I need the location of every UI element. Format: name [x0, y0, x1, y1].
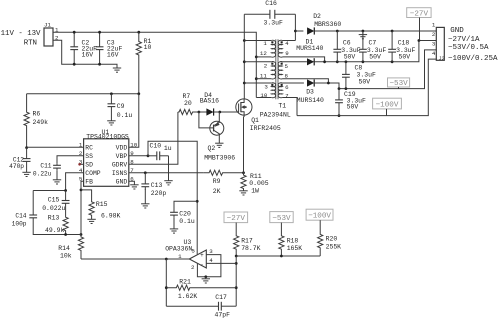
svg-text:50V: 50V	[359, 78, 371, 85]
svg-text:2: 2	[264, 62, 268, 69]
svg-text:FB: FB	[85, 179, 93, 186]
svg-text:10: 10	[144, 44, 152, 51]
svg-text:3: 3	[432, 41, 436, 48]
svg-text:9: 9	[285, 50, 289, 57]
svg-text:11: 11	[260, 72, 267, 79]
svg-text:4: 4	[209, 257, 213, 264]
svg-text:20: 20	[184, 100, 192, 107]
svg-text:C11: C11	[40, 162, 51, 169]
svg-text:C6: C6	[343, 39, 351, 46]
svg-text:3.3uF: 3.3uF	[357, 71, 376, 78]
svg-text:7: 7	[285, 92, 289, 99]
svg-text:C18: C18	[398, 39, 410, 46]
svg-text:−100V: −100V	[308, 212, 331, 220]
svg-text:470p: 470p	[9, 163, 24, 170]
svg-text:ISNS: ISNS	[112, 170, 128, 177]
svg-text:C10: C10	[150, 143, 162, 150]
svg-text:SS: SS	[85, 153, 93, 160]
svg-text:C16: C16	[265, 0, 277, 7]
svg-text:249k: 249k	[33, 119, 49, 126]
svg-text:J1: J1	[44, 22, 51, 29]
svg-text:0.1u: 0.1u	[179, 218, 195, 225]
svg-text:D2: D2	[313, 13, 321, 20]
svg-text:MURS140: MURS140	[297, 97, 324, 104]
svg-text:R6: R6	[33, 111, 41, 118]
svg-text:R9: R9	[213, 178, 221, 185]
svg-text:4: 4	[432, 50, 436, 57]
svg-text:1: 1	[263, 40, 267, 47]
svg-text:BAS16: BAS16	[200, 98, 219, 105]
svg-text:−100V: −100V	[376, 101, 399, 109]
svg-text:IRFR2405: IRFR2405	[250, 125, 281, 132]
svg-text:49.9k: 49.9k	[45, 227, 64, 234]
svg-text:R7: R7	[183, 93, 191, 100]
svg-text:6.98K: 6.98K	[101, 213, 120, 220]
svg-text:0.005: 0.005	[249, 180, 268, 187]
svg-text:MMBT3906: MMBT3906	[204, 155, 235, 162]
svg-text:C14: C14	[15, 213, 26, 220]
svg-text:T1: T1	[278, 103, 286, 110]
svg-text:R13: R13	[48, 214, 60, 221]
svg-text:255K: 255K	[326, 243, 342, 250]
svg-text:J2: J2	[439, 56, 445, 62]
svg-text:100p: 100p	[12, 220, 27, 227]
svg-text:C9: C9	[117, 103, 125, 110]
svg-text:1u: 1u	[164, 145, 172, 152]
svg-text:R21: R21	[179, 278, 191, 285]
svg-text:C20: C20	[179, 210, 191, 217]
svg-text:MURS140: MURS140	[296, 45, 323, 52]
svg-text:50V: 50V	[399, 53, 411, 60]
svg-text:OPA336N: OPA336N	[165, 245, 192, 252]
svg-text:Q2: Q2	[208, 145, 216, 152]
svg-text:50V: 50V	[369, 53, 381, 60]
svg-text:16V: 16V	[82, 51, 94, 58]
svg-text:3: 3	[264, 84, 268, 91]
svg-text:16V: 16V	[107, 51, 119, 58]
svg-text:1.62K: 1.62K	[178, 293, 197, 300]
svg-text:47pF: 47pF	[215, 312, 231, 319]
svg-text:−27V: −27V	[410, 10, 429, 18]
svg-text:0.22u: 0.22u	[33, 171, 52, 178]
svg-text:GND: GND	[116, 179, 128, 186]
svg-text:VBP: VBP	[116, 153, 128, 160]
svg-text:TPS40210DGS: TPS40210DGS	[86, 133, 129, 140]
svg-text:5: 5	[191, 247, 195, 254]
svg-text:RC: RC	[85, 145, 93, 152]
svg-text:50V: 50V	[347, 103, 359, 110]
svg-text:GDRV: GDRV	[112, 162, 128, 169]
svg-text:3.3uF: 3.3uF	[264, 20, 283, 27]
svg-text:R17: R17	[241, 238, 253, 245]
svg-text:2: 2	[191, 264, 195, 271]
svg-text:1W: 1W	[251, 187, 259, 194]
svg-text:GND: GND	[450, 27, 464, 35]
svg-text:−53V: −53V	[272, 215, 291, 223]
svg-text:1: 1	[432, 22, 436, 29]
svg-text:Q1: Q1	[251, 117, 259, 124]
svg-text:VDD: VDD	[116, 145, 128, 152]
svg-text:50V: 50V	[344, 53, 356, 60]
svg-text:11V - 13V: 11V - 13V	[1, 30, 41, 38]
svg-text:R18: R18	[287, 238, 299, 245]
svg-text:R14: R14	[58, 245, 70, 252]
svg-text:R20: R20	[326, 236, 338, 243]
svg-text:C15: C15	[48, 196, 60, 203]
svg-text:4: 4	[285, 40, 289, 47]
svg-text:C7: C7	[369, 39, 377, 46]
svg-text:2: 2	[432, 31, 436, 38]
svg-text:RTN: RTN	[24, 39, 37, 47]
svg-text:6: 6	[285, 84, 289, 91]
svg-text:165K: 165K	[287, 245, 303, 252]
svg-text:10: 10	[260, 92, 267, 99]
svg-text:+: +	[200, 252, 204, 259]
svg-text:10k: 10k	[60, 253, 72, 260]
svg-text:8: 8	[285, 72, 289, 79]
svg-text:5: 5	[285, 63, 289, 70]
svg-text:MBRS360: MBRS360	[314, 21, 341, 28]
svg-text:2K: 2K	[213, 188, 221, 195]
svg-text:C13: C13	[151, 182, 163, 189]
svg-text:0.1u: 0.1u	[117, 112, 133, 119]
svg-text:C17: C17	[215, 294, 227, 301]
svg-text:D3: D3	[306, 89, 314, 96]
svg-text:PA2394NL: PA2394NL	[260, 112, 291, 119]
svg-text:12: 12	[260, 50, 267, 57]
svg-text:−53V/0.5A: −53V/0.5A	[448, 44, 489, 52]
svg-text:220p: 220p	[151, 190, 167, 197]
svg-text:R11: R11	[250, 173, 262, 180]
svg-text:78.7K: 78.7K	[241, 245, 260, 252]
svg-text:R15: R15	[96, 201, 108, 208]
svg-text:−27V/1A: −27V/1A	[448, 36, 480, 44]
svg-text:−27V: −27V	[227, 215, 246, 223]
svg-text:-: -	[200, 261, 204, 268]
svg-text:0.022u: 0.022u	[42, 205, 65, 212]
svg-text:−100V/0.25A: −100V/0.25A	[448, 55, 498, 63]
svg-text:SD: SD	[85, 162, 93, 169]
svg-text:COMP: COMP	[85, 170, 101, 177]
